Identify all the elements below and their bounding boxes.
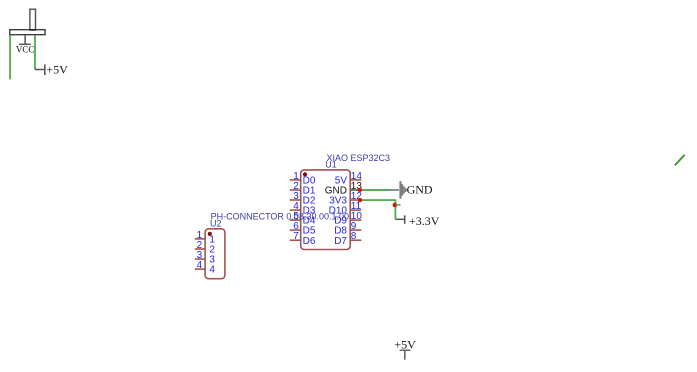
- svg-text:+3.3V: +3.3V: [409, 214, 440, 228]
- U2 pin 2: [195, 240, 216, 256]
- svg-text:D7: D7: [334, 236, 347, 247]
- power symbol +3.3V: [395, 214, 439, 228]
- U2 pin 3: [195, 250, 216, 266]
- svg-text:+5V: +5V: [394, 338, 416, 352]
- svg-text:4: 4: [197, 260, 203, 271]
- power symbol VCC: [16, 35, 35, 54]
- power jack prong-bar joint: [29, 29, 36, 31]
- U2 pin 1 marker dot: [208, 232, 212, 236]
- U1 pin 7 (D6): [290, 231, 316, 247]
- svg-text:GND: GND: [407, 183, 433, 197]
- U1 pin 8 (D7): [334, 231, 361, 247]
- U2 pin 4: [195, 260, 216, 276]
- wire vertical down to +3.3V: [394, 199, 396, 219]
- svg-text:+5V: +5V: [46, 63, 68, 77]
- U1 pin 12 (3V3): [329, 191, 362, 207]
- GND power symbol: [390, 181, 433, 199]
- junction dot at U1 pin12: [358, 198, 362, 202]
- svg-text:7: 7: [293, 231, 299, 242]
- U2 body: [205, 229, 225, 279]
- wire from jack pin to open end: [9, 36, 11, 80]
- svg-text:4: 4: [209, 265, 215, 276]
- power symbol +5V (bottom): [394, 338, 416, 360]
- U2 pin 1: [195, 230, 216, 246]
- U1 pin 2 (D1): [290, 181, 316, 197]
- U1 pin 9 (D8): [334, 221, 361, 237]
- wire from jack to +5V: [34, 36, 36, 70]
- U1 pin 1 marker dot: [303, 172, 307, 176]
- svg-text:U1: U1: [325, 160, 337, 170]
- U1 pin 10 (D9): [334, 211, 362, 227]
- U1 pin 1 (D0): [290, 171, 316, 187]
- U1 pin 3 (D2): [290, 191, 316, 207]
- U1 pin 13 (GND): [325, 181, 363, 197]
- wire U1 pin12 horizontal: [358, 199, 395, 201]
- junction dot on 3V3 wire: [393, 203, 398, 208]
- svg-text:U2: U2: [210, 219, 222, 229]
- power symbol +5V (top left): [35, 63, 68, 77]
- svg-text:PH-CONNECTOR 0.08.30.00.1.00: PH-CONNECTOR 0.08.30.00.1.00: [211, 211, 349, 221]
- svg-text:8: 8: [351, 231, 357, 242]
- U1 pin 4 (D3): [290, 201, 316, 217]
- U1 pin 5 (D4): [290, 211, 316, 227]
- U1 body: [301, 170, 351, 250]
- stray wire segment (diagonal): [675, 155, 685, 165]
- U1 pin 6 (D5): [290, 221, 316, 237]
- svg-text:D6: D6: [303, 236, 316, 247]
- power jack connector prong: [30, 9, 36, 30]
- svg-text:VCC: VCC: [16, 45, 35, 55]
- U1 pin 14 (5V): [335, 171, 363, 187]
- U1 pin 11 (D10): [329, 201, 362, 217]
- junction dot at U1 pin13: [358, 188, 362, 192]
- wire stub right of junction: [396, 204, 401, 206]
- power jack connector bar: [10, 30, 45, 35]
- wire pin13 to GND symbol: [359, 189, 391, 191]
- wire U1 pin13 to GND: [357, 189, 359, 191]
